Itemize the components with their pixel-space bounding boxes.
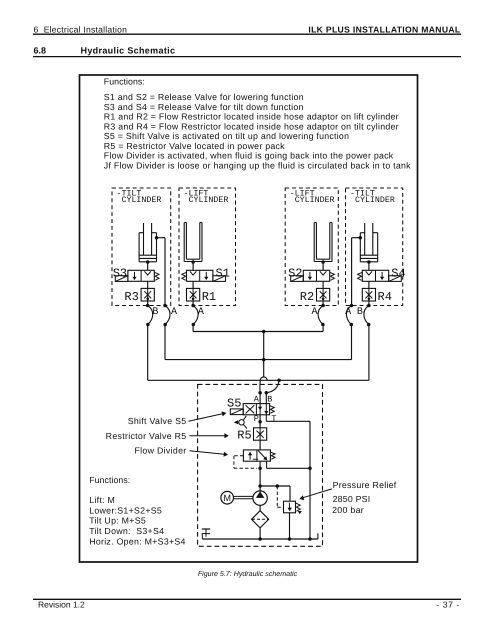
spring of S3	[154, 272, 159, 280]
svg-text:Lift: M: Lift: M	[89, 495, 115, 505]
restrictor R4	[362, 288, 375, 301]
svg-text:Flow Divider is activated, whe: Flow Divider is activated, when fluid is…	[104, 151, 394, 161]
wire valve to restrictor R3	[147, 281, 149, 288]
label R5	[237, 428, 251, 442]
svg-text:A: A	[254, 394, 260, 404]
solenoid of S2	[291, 276, 304, 282]
valve S1 (solenoid release valve)	[187, 270, 213, 281]
svg-text:Restrictor Valve R5: Restrictor Valve R5	[106, 431, 187, 441]
svg-text:Flow Divider: Flow Divider	[135, 446, 187, 456]
port label B	[152, 307, 158, 318]
wire restrictor to box bottom	[368, 301, 370, 306]
section title Hydraulic Schematic	[81, 45, 176, 55]
wire relief outlet to tank line	[289, 513, 291, 539]
junction B manifold tap	[277, 379, 281, 383]
svg-text:M: M	[223, 493, 231, 503]
label S2	[288, 266, 302, 280]
footer rule	[33, 598, 461, 600]
label R1	[202, 290, 216, 304]
cylinder tilt cylinder 1 (tilt, rod and piston)	[139, 223, 156, 262]
tank symbol	[202, 529, 210, 539]
port label A	[345, 307, 351, 318]
flow divider valve body	[243, 450, 270, 461]
svg-text:200 bar: 200 bar	[332, 505, 364, 515]
wire R5 to flow divider	[259, 440, 261, 450]
label Pressure Relief with arrow	[299, 480, 396, 500]
svg-text:Revision 1.2: Revision 1.2	[38, 600, 85, 610]
hose coupling exit B	[364, 304, 371, 327]
svg-text:R3: R3	[124, 290, 138, 304]
pump	[253, 491, 267, 505]
cylinder group 2 dashed box	[179, 188, 236, 306]
junction lift A manifold	[262, 330, 266, 334]
svg-text:R3 and R4 = Flow Restrictor lo: R3 and R4 = Flow Restrictor located insi…	[104, 121, 399, 131]
filter	[252, 511, 269, 528]
svg-text:R1: R1	[202, 290, 216, 304]
svg-text:S2: S2	[288, 266, 302, 280]
label 200 bar	[332, 505, 364, 515]
wire restrictor to box bottom	[322, 301, 324, 306]
wire valve to restrictor R4	[368, 281, 370, 288]
svg-text:Jf Flow Divider is loose or ha: Jf Flow Divider is loose or hanging up t…	[104, 160, 411, 170]
spring of S2	[330, 272, 335, 280]
svg-text:Hydraulic Schematic: Hydraulic Schematic	[81, 45, 176, 55]
svg-text:B: B	[267, 394, 272, 404]
svg-text:CYLINDER: CYLINDER	[189, 196, 229, 205]
label -LIFT CYLINDER	[184, 190, 229, 206]
restrictor R3	[141, 288, 154, 301]
wire tilt A manifold	[165, 325, 352, 360]
cylinder group 1 dashed box	[112, 188, 171, 306]
wire filter to tank line	[259, 528, 261, 539]
restrictor valve R5	[254, 428, 267, 440]
spring of flow divider	[270, 452, 275, 459]
label Restrictor Valve R5 with arrow	[106, 431, 229, 441]
svg-text:A: A	[345, 307, 351, 318]
svg-text:Functions:: Functions:	[104, 77, 145, 87]
svg-text:S3: S3	[113, 266, 127, 280]
figure border frame	[80, 75, 418, 562]
functions heading	[104, 77, 145, 87]
label 2850 PSI	[333, 494, 371, 504]
power pack dashed enclosure	[198, 384, 323, 546]
manual override of S5	[234, 416, 247, 429]
svg-text:S1 and S2 = Release Valve for: S1 and S2 = Release Valve for lowering f…	[104, 92, 304, 102]
label R3	[124, 290, 138, 304]
wire tilt B manifold	[148, 325, 369, 381]
port label P	[254, 414, 259, 424]
svg-text:Horiz. Open: M+S3+S4: Horiz. Open: M+S3+S4	[89, 537, 186, 547]
port label A	[312, 307, 318, 318]
footer revision	[38, 600, 85, 610]
wire S5 P port to R5	[258, 415, 262, 428]
port label A	[171, 307, 177, 318]
spring of S1	[182, 272, 187, 280]
junction cylinder bottom port	[321, 260, 325, 264]
spring of S4	[358, 272, 363, 280]
svg-text:CYLINDER: CYLINDER	[122, 196, 162, 205]
page header right text	[308, 25, 460, 35]
svg-text:T: T	[271, 414, 276, 424]
svg-text:Tilt Down: S3+S4: Tilt Down: S3+S4	[89, 526, 164, 536]
label R4	[378, 290, 392, 304]
svg-text:ILK PLUS INSTALLATION MANUAL: ILK PLUS INSTALLATION MANUAL	[308, 25, 460, 35]
svg-text:Tilt Up: M+S5: Tilt Up: M+S5	[89, 516, 146, 526]
svg-text:S1: S1	[216, 266, 230, 280]
wire restrictor to box bottom	[147, 301, 149, 306]
port label T	[271, 414, 276, 424]
hose coupling exit A	[318, 304, 325, 327]
motor M	[221, 491, 234, 504]
cylinder lift cylinder 2 (lift, barrel)	[314, 223, 332, 262]
tank return line	[202, 533, 318, 540]
wire valve to restrictor R1	[192, 281, 194, 288]
svg-text:R1 and R2 = Flow Restrictor lo: R1 and R2 = Flow Restrictor located insi…	[104, 112, 399, 122]
junction cylinder bottom port	[146, 260, 150, 264]
solenoid of S5	[230, 409, 243, 415]
svg-text:B: B	[357, 307, 363, 318]
valve S2 (solenoid release valve)	[303, 270, 329, 281]
figure caption	[198, 570, 298, 578]
svg-text:Figure 5.7: Hydraulic schemati: Figure 5.7: Hydraulic schematic	[198, 570, 298, 578]
wire cylinder to valve S2	[322, 262, 324, 270]
wire cylinder to valve S1	[192, 262, 194, 270]
svg-text:Shift Valve S5: Shift Valve S5	[128, 416, 187, 426]
svg-text:- 37 -: - 37 -	[436, 600, 459, 610]
svg-text:S5 = Shift Valve is activated: S5 = Shift Valve is activated on tilt up…	[104, 131, 349, 141]
svg-text:P: P	[254, 414, 259, 424]
solenoid of S3	[115, 276, 128, 282]
cylinder tilt cylinder 2 (tilt, rod and piston)	[360, 223, 377, 262]
port label A at power pack	[254, 394, 260, 404]
wire pump inlet tap to relief valve	[258, 484, 290, 501]
functions legend	[89, 475, 186, 547]
port label B	[357, 307, 363, 318]
hose coupling exit A	[346, 304, 353, 327]
footer page number	[436, 600, 459, 610]
port label B at power pack	[267, 394, 272, 404]
pilot dashed line to relief valve	[277, 486, 283, 507]
valve S5 (shift valve) body	[243, 404, 269, 415]
page header left text	[34, 25, 128, 35]
solenoid of S1	[213, 276, 226, 282]
svg-text:2850 PSI: 2850 PSI	[333, 494, 371, 504]
spring of S5	[270, 406, 275, 414]
wire main pressure line to pump	[258, 461, 262, 491]
wire B drop to power pack	[265, 380, 280, 403]
svg-text:A: A	[171, 307, 177, 318]
svg-text:6.8: 6.8	[34, 45, 47, 55]
label -TILT CYLINDER	[350, 190, 395, 206]
junction rod-side port	[359, 236, 363, 240]
junction rod-side port	[155, 236, 159, 240]
wire lift A manifold	[193, 325, 323, 332]
svg-text:Functions:: Functions:	[89, 475, 130, 485]
wire valve to restrictor R2	[322, 281, 324, 288]
functions description text	[104, 92, 411, 170]
hose coupling exit A	[163, 304, 170, 327]
label -TILT CYLINDER	[117, 190, 162, 206]
wire restrictor to box bottom	[192, 301, 194, 306]
wire flow divider outlet to tank drop	[267, 461, 310, 468]
svg-text:6 Electrical Installation: 6 Electrical Installation	[34, 25, 128, 35]
hose coupling exit B	[146, 304, 153, 327]
svg-text:R4: R4	[378, 290, 392, 304]
svg-text:Lower:S1+S2+S5: Lower:S1+S2+S5	[89, 505, 162, 515]
wire pump to filter	[259, 505, 261, 510]
wire cylinder to valve S3	[147, 262, 149, 270]
label R2	[300, 290, 314, 304]
svg-text:R5: R5	[237, 428, 251, 442]
restrictor R2	[317, 288, 330, 301]
wire rod-side port to exit line	[352, 238, 361, 306]
junction tilt A manifold	[262, 358, 266, 362]
pressure relief valve	[284, 501, 296, 513]
cylinder group 3 dashed box	[285, 188, 338, 306]
solenoid of S4	[389, 276, 402, 282]
restrictor R1	[187, 288, 200, 301]
wire cylinder to valve S4	[368, 262, 370, 270]
wire A drop with crossover hop	[258, 332, 267, 404]
valve S4 (solenoid release valve)	[362, 270, 388, 281]
svg-text:B: B	[152, 307, 158, 318]
svg-text:Pressure Relief: Pressure Relief	[333, 480, 397, 490]
svg-text:S4: S4	[391, 266, 405, 280]
cylinder group 4 dashed box	[346, 188, 403, 306]
spring of relief valve	[296, 503, 302, 514]
svg-text:S5: S5	[227, 396, 241, 410]
svg-text:A: A	[198, 307, 204, 318]
hose coupling exit A	[191, 304, 198, 327]
svg-text:CYLINDER: CYLINDER	[295, 196, 335, 205]
wire rod-side port to exit line	[157, 238, 166, 306]
header rule	[33, 33, 461, 35]
valve S3 (solenoid release valve)	[128, 270, 154, 281]
section rule	[33, 56, 461, 58]
section number 6.8	[34, 45, 47, 55]
port label A	[198, 307, 204, 318]
svg-text:CYLINDER: CYLINDER	[355, 196, 395, 205]
svg-text:A: A	[312, 307, 318, 318]
junction cylinder bottom port	[191, 260, 195, 264]
label S1	[216, 266, 230, 280]
svg-text:S3 and S4 = Release Valve for: S3 and S4 = Release Valve for tilt down …	[104, 102, 304, 112]
flow divider pilot dashed lines	[234, 456, 257, 469]
cylinder lift cylinder 1 (lift, barrel)	[184, 223, 202, 262]
wire S5 T port to tank drop	[266, 415, 311, 539]
label S5	[227, 396, 241, 410]
label S3	[113, 266, 127, 280]
svg-text:R5 = Restrictor Valve located: R5 = Restrictor Valve located in power p…	[104, 141, 285, 151]
svg-text:R2: R2	[300, 290, 314, 304]
label -LIFT CYLINDER	[290, 190, 335, 206]
label Shift Valve S5 with arrow	[128, 411, 227, 426]
drive shaft	[234, 496, 253, 498]
label Flow Divider with arrow	[135, 446, 229, 457]
junction cylinder bottom port	[367, 260, 371, 264]
label S4	[391, 266, 405, 280]
